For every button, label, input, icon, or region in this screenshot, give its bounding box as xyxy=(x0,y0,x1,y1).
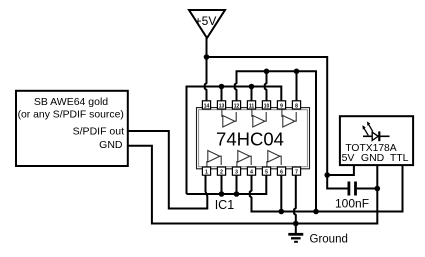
svg-text:2: 2 xyxy=(220,170,223,176)
node ground bus junction xyxy=(293,221,299,227)
svg-text:7: 7 xyxy=(295,170,298,176)
pin 3 xyxy=(232,167,240,176)
svg-text:3: 3 xyxy=(235,170,238,176)
LED symbol inside TOTX xyxy=(363,135,372,137)
wire input bus line D below IC to pin5 xyxy=(187,175,267,195)
capacitor C1 100nF xyxy=(335,182,377,211)
wire pin10 to line B (hop over line C) xyxy=(265,71,267,101)
wire TOTX 5V pin xyxy=(327,165,354,176)
pin 9 xyxy=(277,101,285,110)
pin 11 xyxy=(247,101,255,110)
svg-text:GND: GND xyxy=(99,139,123,151)
wire pin3 stub xyxy=(236,175,238,195)
svg-text:100nF: 100nF xyxy=(335,197,369,211)
source box SB AWE64 xyxy=(16,91,128,166)
node capacitor-GND junction xyxy=(375,186,381,192)
pin 4 xyxy=(247,167,255,176)
svg-text:14: 14 xyxy=(204,103,210,109)
ground xyxy=(288,233,348,245)
IC U1 74HC04 body xyxy=(197,108,310,169)
node +5V junction xyxy=(204,54,210,60)
pin 10 xyxy=(262,101,270,110)
pin 5 xyxy=(262,167,270,176)
pin 2 xyxy=(217,167,225,176)
wire +5V stem to pin14 (hop over line C) xyxy=(205,37,207,102)
node line B pin8 junction xyxy=(294,69,300,75)
wire pin7 to ground (hop over TTL line) xyxy=(294,175,296,234)
inverter gate bottom 1 (pins 1-2) xyxy=(207,151,221,168)
node TTL line pin6 junction xyxy=(279,209,285,215)
pin 1 xyxy=(202,167,210,176)
svg-text:S/PDIF out: S/PDIF out xyxy=(73,125,124,137)
wire TTL output line from pin4 to TOTX TTL pin (hop over line D) xyxy=(250,164,403,212)
wire pin11 stub xyxy=(251,87,253,102)
pin 12 xyxy=(232,101,240,110)
node line C pin11 junction xyxy=(249,84,255,90)
svg-text:+5V: +5V xyxy=(195,14,217,28)
optical transmitter TOTX178A xyxy=(340,116,413,165)
inverter gate top 2 (pins 11-10) xyxy=(252,109,266,127)
inverter gate bottom 3 (pins 5-6) xyxy=(267,151,281,168)
inverter gate top 3 (pins 9-8) xyxy=(282,109,296,127)
node TTL line output-bus junction xyxy=(313,209,319,215)
node line B pin10 junction xyxy=(264,69,270,75)
wire pin13 stub xyxy=(221,87,223,102)
svg-text:11: 11 xyxy=(249,103,255,109)
svg-text:4: 4 xyxy=(250,170,253,176)
inverter gate top 1 (pins 13-12) xyxy=(222,109,236,127)
svg-text:9: 9 xyxy=(280,103,283,109)
+5V supply symbol xyxy=(189,10,225,38)
wire pin2 stub xyxy=(221,175,223,195)
wire input bus line C (left vertical + top horizontal to pin9) xyxy=(187,87,282,195)
pin 8 xyxy=(292,101,300,110)
svg-text:1: 1 xyxy=(205,170,208,176)
pin 7 xyxy=(292,167,300,176)
svg-text:5: 5 xyxy=(265,170,268,176)
svg-text:74HC04: 74HC04 xyxy=(216,128,284,149)
svg-text:5V: 5V xyxy=(342,152,355,164)
svg-text:8: 8 xyxy=(295,103,298,109)
pin 6 xyxy=(277,167,285,176)
svg-text:12: 12 xyxy=(234,103,240,109)
node line D pin2 junction xyxy=(219,191,225,197)
wire S/PDIF out to pin1 (hop over line D) xyxy=(127,131,207,209)
wire pin6 stub xyxy=(280,175,282,212)
wire GND from source box to ground bus xyxy=(127,146,377,224)
svg-text:13: 13 xyxy=(219,103,225,109)
svg-text:TTL: TTL xyxy=(390,152,409,164)
node line D pin3 junction xyxy=(234,191,240,197)
svg-text:IC1: IC1 xyxy=(215,198,235,212)
node 5V-TOTX junction xyxy=(324,172,330,178)
pin 13 xyxy=(217,101,225,110)
wire output bus line B to pin12 and down right side xyxy=(235,71,316,211)
wire pin8 to line B xyxy=(296,71,298,101)
svg-text:6: 6 xyxy=(280,170,283,176)
svg-text:GND: GND xyxy=(361,152,385,164)
svg-text:(or any S/PDIF source): (or any S/PDIF source) xyxy=(18,110,124,121)
LED arrow 2 xyxy=(364,128,368,135)
svg-text:SB AWE64 gold: SB AWE64 gold xyxy=(34,96,108,108)
node line C pin13 junction xyxy=(219,84,225,90)
svg-text:Ground: Ground xyxy=(310,233,348,245)
pin 14 xyxy=(202,101,210,110)
wire +5V rail top (line A) xyxy=(207,57,348,189)
LED arrow 1 xyxy=(369,124,373,131)
inverter gate bottom 2 (pins 3-4) xyxy=(237,151,251,168)
svg-text:10: 10 xyxy=(264,103,270,109)
